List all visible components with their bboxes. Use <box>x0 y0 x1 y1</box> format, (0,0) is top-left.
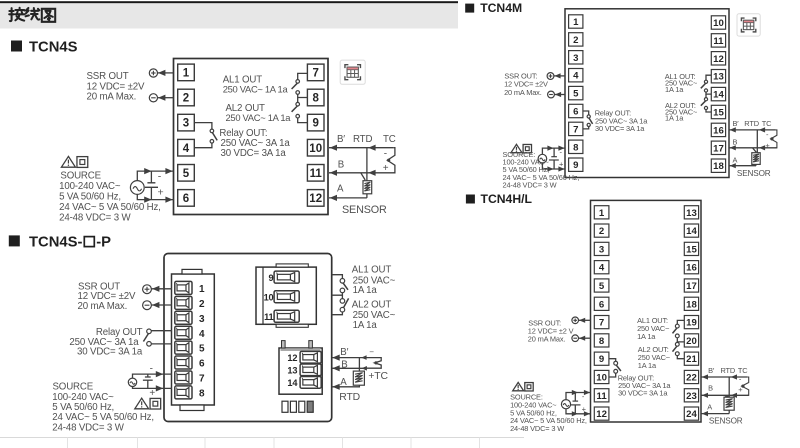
svg-text:10: 10 <box>264 293 274 303</box>
wire sensor B (TCN4S-P) <box>332 367 366 369</box>
arrow into terminal11 (TCN4S) <box>330 170 337 176</box>
warning and insulation symbols (TCN4M) <box>511 144 531 153</box>
svg-text:9: 9 <box>599 354 604 365</box>
wire AL1 contact to terminal8 (TCN4S) <box>298 94 308 97</box>
DC top bar (TCN4H/L) <box>573 400 579 402</box>
svg-text:7: 7 <box>199 374 205 385</box>
RTD drop wire (TCN4H/L) <box>728 377 730 397</box>
svg-text:9: 9 <box>312 118 318 130</box>
svg-text:RTD: RTD <box>353 134 372 145</box>
wire AL1 top stub (TCN4S-P) <box>332 275 343 279</box>
screw terminal 11 (TCN4S-P) <box>274 310 299 322</box>
relay contact (TCN4H/L) <box>614 361 621 373</box>
svg-text:12: 12 <box>713 54 724 65</box>
terminal 20 (TCN4H/L) <box>684 334 698 347</box>
svg-text:2: 2 <box>183 93 189 105</box>
terminal 8 (TCN4S) <box>307 89 324 106</box>
B wire into RTD (TCN4M) <box>753 148 756 152</box>
terminal 22 (TCN4H/L) <box>684 370 698 383</box>
svg-text:SENSOR: SENSOR <box>709 416 743 425</box>
B wire into RTD (TCN4S) <box>361 173 365 180</box>
arrow B at TC (TCN4M) <box>759 145 765 150</box>
svg-text:-P: -P <box>96 235 111 251</box>
DC stub bottom (TCN4H/L) <box>574 405 576 414</box>
svg-text:+: + <box>149 388 155 399</box>
wire sensor A (TCN4M) <box>729 165 756 167</box>
section heading bullet TCN4H/L <box>466 195 475 204</box>
svg-text:+TC: +TC <box>368 371 388 382</box>
svg-text:4: 4 <box>599 263 605 274</box>
svg-text:5: 5 <box>573 89 579 100</box>
wire SSR+ to terminal7 (TCN4H/L) <box>579 319 591 321</box>
terminal 11 (TCN4H/L) <box>594 389 609 402</box>
screw terminal 12 (TCN4S-P) <box>300 351 321 363</box>
svg-text:8: 8 <box>573 142 579 153</box>
connector top key (TCN4S-P) <box>182 269 202 274</box>
terminal 13 (TCN4H/L) <box>684 206 698 219</box>
svg-text:12: 12 <box>287 353 297 363</box>
terminal 3 (TCN4H/L) <box>594 242 609 255</box>
terminal 18 (TCN4M) <box>711 159 725 172</box>
svg-text:6: 6 <box>199 359 205 370</box>
screw terminal 9 (TCN4S-P) <box>274 271 299 283</box>
connector bottom key (TCN4S-P) <box>180 405 204 411</box>
arrow TC plus branch (TCN4S) <box>368 170 375 176</box>
svg-text:15: 15 <box>686 244 697 255</box>
title 接线图 (wiring diagram) <box>9 8 55 22</box>
header black rule <box>0 1 458 3</box>
connector housing (TCN4S-P) <box>172 274 215 405</box>
warning and insulation symbols (TCN4H/L) <box>513 382 533 391</box>
arrow B at TC (TCN4S-P) <box>362 366 367 371</box>
svg-text:20 mA Max.: 20 mA Max. <box>87 91 137 102</box>
svg-text:2: 2 <box>199 299 205 310</box>
svg-text:2: 2 <box>573 35 578 46</box>
arrow into terminal8 (TCN4M) <box>558 146 564 151</box>
svg-text:30 VDC= 3A 1a: 30 VDC= 3A 1a <box>221 148 287 159</box>
DC top bar (TCN4M) <box>551 156 557 158</box>
wire relay top to screw (TCN4S-P) <box>151 330 172 332</box>
svg-text:10: 10 <box>713 18 724 29</box>
terminal 7 (TCN4H/L) <box>594 316 609 329</box>
svg-text:A: A <box>337 183 344 194</box>
thermocouple symbol (TCN4H/L) <box>741 377 748 395</box>
wire sensor A (TCN4S-P) <box>332 385 360 387</box>
DC stub top (TCN4H/L) <box>574 393 576 402</box>
svg-text:24 VAC~ 5 VA 50/60 Hz,: 24 VAC~ 5 VA 50/60 Hz, <box>52 412 154 423</box>
terminal 17 (TCN4M) <box>711 141 725 154</box>
bottom pin 4 (TCN4S-P) <box>307 401 313 412</box>
svg-text:TC: TC <box>383 134 396 145</box>
arrow into terminal12 (TCN4H/L) <box>584 411 590 416</box>
SSR plus output symbol (TCN4H/L) <box>572 317 579 324</box>
arrow into terminal5 (TCN4S) <box>165 168 172 174</box>
svg-text:30 VDC= 3A 1a: 30 VDC= 3A 1a <box>595 124 645 133</box>
arrow B at box (TCN4M) <box>730 145 736 150</box>
arrow A at box (TCN4M) <box>730 163 736 168</box>
terminal 15 (TCN4M) <box>711 105 725 118</box>
terminal 2 (TCN4S) <box>178 89 195 106</box>
arrow into terminal12 (TCN4S) <box>330 195 337 201</box>
svg-text:2: 2 <box>599 226 604 237</box>
svg-text:B: B <box>338 160 344 171</box>
terminal 10 (TCN4M) <box>711 16 725 29</box>
svg-text:12: 12 <box>596 409 607 420</box>
svg-text:1A 1a: 1A 1a <box>665 85 684 94</box>
wire source to terminal11 (TCN4H/L) <box>566 393 591 400</box>
svg-text:8: 8 <box>199 389 205 400</box>
arrow mid bottom (TCN4H/L) <box>572 411 578 416</box>
arrow B' at TC (TCN4S-P) <box>361 355 366 360</box>
svg-text:B′: B′ <box>337 134 345 145</box>
thermocouple symbol (TCN4M) <box>770 130 777 148</box>
wire terminal3 to relay contact (TCN4S) <box>194 123 212 130</box>
panel icon (TCN4M) <box>737 14 760 36</box>
wire SSR+ to terminal4 (TCN4M) <box>554 75 565 77</box>
SSR plus output symbol (TCN4S-P) <box>143 285 152 294</box>
RTD sensor (TCN4M) <box>752 153 760 165</box>
DC stub top (TCN4S-P) <box>147 374 149 377</box>
terminal 6 (TCN4S) <box>178 190 195 207</box>
section heading bullet TCN4S-P <box>9 235 20 246</box>
RTD sensor (TCN4S-P) <box>353 371 364 385</box>
svg-text:24-48 VDC= 3 W: 24-48 VDC= 3 W <box>59 212 131 223</box>
arrow at SSR+ (TCN4S-P) <box>152 286 159 292</box>
arrow mid terminal6 wire (TCN4S) <box>144 197 151 203</box>
SSR minus output symbol (TCN4H/L) <box>572 335 579 342</box>
svg-text:17: 17 <box>713 143 724 154</box>
svg-text:-: - <box>158 170 162 182</box>
svg-text:-: - <box>739 375 742 384</box>
svg-text:7: 7 <box>312 68 318 80</box>
terminal 19 (TCN4H/L) <box>684 316 698 329</box>
wire terminal6 to relay contact (TCN4M) <box>583 111 589 115</box>
svg-text:14: 14 <box>713 90 724 101</box>
AC supply source (TCN4S) <box>130 181 144 195</box>
terminal 11 (TCN4M) <box>711 34 725 47</box>
wire relay to terminal10 (TCN4H/L) <box>609 373 616 377</box>
wire terminal9 to relay contact (TCN4H/L) <box>609 359 616 362</box>
warning and insulation symbols (TCN4S) <box>61 156 87 167</box>
svg-text:250 VAC~ 1A 1a: 250 VAC~ 1A 1a <box>226 112 292 123</box>
DC bottom bar (TCN4M) <box>549 159 559 161</box>
wire AL1 to terminal14 (TCN4M) <box>706 92 711 94</box>
wire terminal7 to AL1 contact (TCN4S) <box>298 73 308 79</box>
block 9-11 inner wall (TCN4S-P) <box>262 267 264 324</box>
svg-text:17: 17 <box>686 281 697 292</box>
AL1 relay contact (TCN4M) <box>701 80 708 92</box>
svg-text:4: 4 <box>199 329 205 340</box>
wire source to terminal6 (TCN4S) <box>137 194 173 199</box>
svg-text:B: B <box>708 384 713 393</box>
svg-text:-: - <box>150 363 153 374</box>
svg-text:100-240 VAC~: 100-240 VAC~ <box>59 181 121 192</box>
arrow into terminal10 (TCN4S) <box>330 145 337 151</box>
terminal 4 (TCN4H/L) <box>594 261 609 274</box>
terminal 15 (TCN4H/L) <box>684 242 698 255</box>
wire source to screw7 (TCN4S-P) <box>133 374 173 378</box>
wire SSR+ to screw1 (TCN4S-P) <box>151 288 172 290</box>
AL2 relay contact (TCN4H/L) <box>673 342 680 355</box>
screw terminal 8 (TCN4S-P) <box>175 386 192 399</box>
svg-text:B′: B′ <box>708 366 715 375</box>
wire sensor B' (TCN4H/L) <box>701 376 747 378</box>
SSR plus output symbol (TCN4S) <box>149 69 157 77</box>
svg-text:1: 1 <box>573 17 579 28</box>
svg-text:1: 1 <box>183 68 190 80</box>
svg-text:SOURCE: SOURCE <box>60 171 101 182</box>
header gray bar <box>0 3 458 28</box>
terminal 6 (TCN4M) <box>569 104 583 117</box>
AL2 relay contact (TCN4S-P) <box>340 298 349 312</box>
svg-text:9: 9 <box>573 160 578 171</box>
arrow B at box (TCN4H/L) <box>702 393 708 398</box>
terminal block 12-14 housing (TCN4S-P) <box>279 348 322 394</box>
wire relay contact to terminal4 (TCN4S) <box>194 143 212 148</box>
SSR plus output symbol (TCN4M) <box>547 73 554 80</box>
svg-text:6: 6 <box>573 106 578 117</box>
wire AL2 contact to terminal9 (TCN4S) <box>298 118 308 123</box>
AC supply source (TCN4H/L) <box>561 400 570 409</box>
svg-text:15: 15 <box>713 107 724 118</box>
svg-text:4: 4 <box>573 71 579 82</box>
SSR minus output symbol (TCN4S-P) <box>143 301 152 310</box>
wire relay contact to terminal7 (TCN4M) <box>583 127 589 129</box>
svg-text:TCN4M: TCN4M <box>480 1 522 15</box>
svg-text:14: 14 <box>287 378 298 388</box>
svg-text:+: + <box>559 160 564 169</box>
svg-text:11: 11 <box>264 312 273 322</box>
block 9-11 bottom tab (TCN4S-P) <box>276 324 308 327</box>
screw terminal 1 (TCN4S-P) <box>175 281 192 294</box>
table column rule 5 (cropped) <box>342 438 344 448</box>
wire SSR- to terminal5 (TCN4M) <box>554 94 565 96</box>
arrow B at box (TCN4S-P) <box>332 365 339 371</box>
arrow at SSR- (TCN4M) <box>555 92 561 97</box>
terminal 5 (TCN4M) <box>569 86 583 99</box>
wire AL mid stub (TCN4S-P) <box>332 293 343 296</box>
terminal 1 (TCN4H/L) <box>594 206 609 219</box>
wire source to terminal12 (TCN4H/L) <box>566 409 591 414</box>
svg-text:TCN4S-: TCN4S- <box>29 235 83 251</box>
wire source to screw8 (TCN4S-P) <box>133 387 173 389</box>
terminal 6 (TCN4H/L) <box>594 297 609 310</box>
bottom pin 3 (TCN4S-P) <box>299 401 305 412</box>
RTD sensor (TCN4S) <box>363 181 372 194</box>
AL1 relay contact (TCN4S) <box>292 80 300 95</box>
arrow at SSR- (TCN4H/L) <box>579 336 585 341</box>
arrow B' at box (TCN4M) <box>730 127 736 132</box>
RTD drop wire (TCN4S) <box>366 148 368 181</box>
bottom pin 1 (TCN4S-P) <box>282 401 288 412</box>
terminal 2 (TCN4M) <box>569 33 583 46</box>
svg-text:20 mA Max.: 20 mA Max. <box>528 335 566 344</box>
terminal 14 (TCN4H/L) <box>684 224 698 237</box>
arrow mid terminal5 wire (TCN4S) <box>144 168 151 174</box>
terminal 7 (TCN4S) <box>307 64 324 81</box>
svg-text:30 VDC= 3A 1a: 30 VDC= 3A 1a <box>618 388 668 397</box>
block pin left (TCN4S-P) <box>282 341 286 348</box>
TCN4S-P outer body <box>164 254 332 422</box>
svg-text:7: 7 <box>599 318 604 329</box>
DC stub bottom (TCN4S-P) <box>147 380 149 388</box>
arrow at SSR- (TCN4S-P) <box>152 302 159 308</box>
svg-text:B′: B′ <box>733 119 740 128</box>
svg-text:TCN4S: TCN4S <box>29 40 78 56</box>
svg-text:SOURCE: SOURCE <box>53 381 94 392</box>
wire SSR- to screw2 (TCN4S-P) <box>151 304 172 306</box>
RTD drop wire (TCN4S-P) <box>358 358 360 372</box>
arrow into SSR- (TCN4S) <box>158 95 165 101</box>
svg-text:23: 23 <box>686 391 697 402</box>
arrow A at box (TCN4H/L) <box>702 411 708 416</box>
table column rule 4 (cropped) <box>273 438 275 448</box>
wire source to terminal9 (TCN4M) <box>542 163 565 169</box>
block 9-11 top tab (TCN4S-P) <box>276 264 308 267</box>
RTD drop wire (TCN4M) <box>756 130 758 153</box>
svg-text:1: 1 <box>599 208 605 219</box>
terminal 7 (TCN4M) <box>569 122 583 135</box>
wire terminal10 sensor B' (TCN4S) <box>329 147 394 149</box>
svg-text:8: 8 <box>312 93 319 105</box>
wire sensor B (TCN4M) <box>729 147 777 149</box>
svg-text:-: - <box>384 148 387 159</box>
terminal 5 (TCN4S) <box>178 165 195 182</box>
svg-text:12: 12 <box>309 193 322 205</box>
svg-text:30 VDC= 3A 1a: 30 VDC= 3A 1a <box>77 347 143 358</box>
table column rule 1 (cropped) <box>67 438 69 448</box>
wire terminal1 to SSR+ (TCN4S) <box>158 72 174 74</box>
terminal 23 (TCN4H/L) <box>684 389 698 402</box>
svg-text:5: 5 <box>599 281 605 292</box>
wire relay bottom to screw (TCN4S-P) <box>151 343 172 345</box>
svg-text:AL2 OUT: AL2 OUT <box>352 300 392 311</box>
wire AL2 to terminal15 (TCN4M) <box>706 110 711 112</box>
svg-text:A: A <box>707 402 712 411</box>
svg-text:16: 16 <box>713 125 724 136</box>
wire AL2 bottom stub (TCN4S-P) <box>332 312 343 315</box>
svg-text:6: 6 <box>183 193 189 205</box>
arrow mid top (TCN4M) <box>547 146 553 151</box>
SSR minus output symbol (TCN4S) <box>149 94 157 102</box>
screw terminal 13 (TCN4S-P) <box>300 364 321 376</box>
RTD stub to A (TCN4H/L) <box>728 410 730 413</box>
terminal 9 (TCN4S) <box>307 114 324 131</box>
table column rule 3 (cropped) <box>204 438 206 448</box>
svg-text:3: 3 <box>183 118 189 130</box>
AL2 relay contact (TCN4M) <box>701 98 708 110</box>
thermocouple symbol (TCN4S-P) <box>366 358 381 369</box>
svg-text:1A 1a: 1A 1a <box>353 320 378 331</box>
svg-text:+: + <box>383 163 389 174</box>
svg-text:13: 13 <box>713 72 724 83</box>
wire terminal19 to AL1 (TCN4H/L) <box>677 320 684 324</box>
warning and insulation symbols (TCN4S-P) <box>135 398 161 409</box>
wire sensor B' (TCN4M) <box>729 129 775 131</box>
svg-text:24-48 VDC= 3 W: 24-48 VDC= 3 W <box>52 423 124 434</box>
terminal 2 (TCN4H/L) <box>594 224 609 237</box>
TCN4S outer body <box>174 59 329 215</box>
svg-text:1A 1a: 1A 1a <box>665 114 684 123</box>
svg-text:RTD: RTD <box>721 366 736 375</box>
AL1 relay contact (TCN4S-P) <box>340 279 348 293</box>
arrow into terminal11 (TCN4H/L) <box>584 390 590 395</box>
wire AL1 to terminal20 (TCN4H/L) <box>677 338 684 342</box>
DC top bar (TCN4S-P) <box>145 376 151 378</box>
svg-text:TC: TC <box>762 119 772 128</box>
terminal 16 (TCN4H/L) <box>684 261 698 274</box>
wire terminal2 to SSR- (TCN4S) <box>158 97 174 99</box>
svg-text:RTD: RTD <box>744 119 759 128</box>
svg-text:9: 9 <box>269 273 274 283</box>
table column rule 6 (cropped) <box>410 438 412 448</box>
terminal 14 (TCN4M) <box>711 87 725 100</box>
svg-text:-: - <box>766 130 769 139</box>
wire source to terminal5 (TCN4S) <box>137 171 173 181</box>
svg-text:−: − <box>369 348 374 357</box>
terminal 24 (TCN4H/L) <box>684 407 698 420</box>
svg-text:10: 10 <box>596 372 607 383</box>
arrow mid bottom (TCN4M) <box>547 166 553 171</box>
wire AL junction down (TCN4S-P) <box>341 295 343 298</box>
bottom pin 2 (TCN4S-P) <box>290 401 296 412</box>
svg-text:RTD: RTD <box>339 392 360 403</box>
terminal 8 (TCN4H/L) <box>594 334 609 347</box>
svg-text:10: 10 <box>309 143 322 155</box>
DC supply symbol bottom bar (TCN4S) <box>145 186 158 188</box>
arrow B' at box (TCN4S-P) <box>332 355 339 361</box>
wire terminal11 sensor B (TCN4S) <box>329 172 395 174</box>
relay contact (TCN4S-P) <box>143 329 151 346</box>
svg-text:SSR OUT: SSR OUT <box>87 71 129 82</box>
screw terminal 10 (TCN4S-P) <box>274 291 299 303</box>
svg-text:24-48 VDC= 3 W: 24-48 VDC= 3 W <box>503 180 557 189</box>
thermocouple symbol (TCN4S) <box>387 148 395 173</box>
terminal 1 (TCN4S) <box>178 64 195 81</box>
svg-text:3: 3 <box>599 244 604 255</box>
wire source to terminal8 (TCN4M) <box>542 148 565 154</box>
section heading bullet TCN4M <box>465 4 474 13</box>
svg-text:+: + <box>158 187 164 199</box>
terminal 12 (TCN4S) <box>307 190 324 207</box>
svg-text:24: 24 <box>686 409 697 420</box>
terminal 13 (TCN4M) <box>711 70 725 83</box>
terminal 11 (TCN4S) <box>307 165 324 182</box>
DC supply symbol stub bottom (TCN4S) <box>150 187 152 199</box>
wire AL2 to terminal21 (TCN4H/L) <box>677 356 684 359</box>
svg-text:1: 1 <box>199 284 205 295</box>
screw terminal 5 (TCN4S-P) <box>175 341 192 354</box>
screw terminal 7 (TCN4S-P) <box>175 371 192 384</box>
wire sensor A (TCN4H/L) <box>701 413 729 415</box>
AL1 relay contact (TCN4H/L) <box>673 324 680 338</box>
AL2 relay contact (TCN4S) <box>292 102 300 118</box>
svg-text:5: 5 <box>199 344 205 355</box>
wire junction to AL2 (TCN4M) <box>705 94 707 98</box>
arrow source bottom (TCN4S-P) <box>156 385 163 391</box>
wire junction to AL2 (TCN4H/L) <box>676 341 678 344</box>
svg-text:20 mA Max.: 20 mA Max. <box>78 301 128 312</box>
arrow into terminal6 (TCN4S) <box>165 197 172 203</box>
block pin right (TCN4S-P) <box>309 341 313 348</box>
DC stub bottom (TCN4M) <box>553 160 555 169</box>
block 12-14 top band (TCN4S-P) <box>281 348 321 351</box>
B wire into RTD (TCN4H/L) <box>725 396 728 397</box>
DC supply symbol stub top (TCN4S) <box>150 171 152 183</box>
svg-text:6: 6 <box>599 299 604 310</box>
DC supply symbol top bar (TCN4S) <box>147 182 155 184</box>
svg-text:4: 4 <box>183 143 190 155</box>
